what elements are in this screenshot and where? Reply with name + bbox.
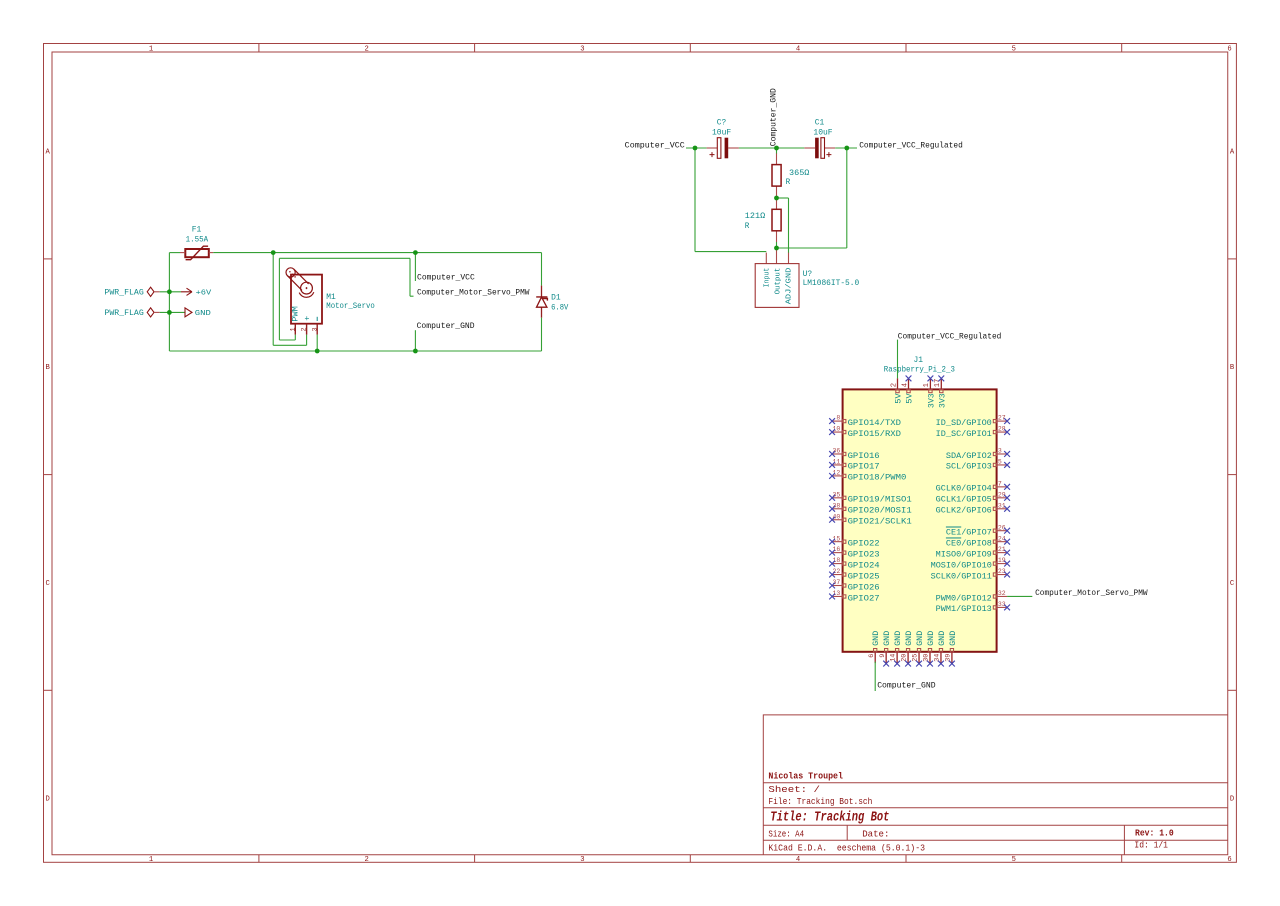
- svg-text:CE1/GPIO7: CE1/GPIO7: [946, 528, 992, 538]
- J1 pin 22 GPIO25: [832, 574, 843, 576]
- junction bottom rail / motor pin 3: [315, 349, 320, 354]
- junction top rail / Computer_VCC stub: [413, 250, 418, 255]
- svg-text:GPIO27: GPIO27: [848, 593, 880, 603]
- junction top rail / motor + branch: [271, 250, 276, 255]
- wire: [160, 291, 181, 293]
- svg-text:GCLK2/GPIO6: GCLK2/GPIO6: [936, 506, 992, 516]
- wire: top rail: [169, 252, 180, 254]
- svg-text:4: 4: [796, 856, 800, 864]
- J1 pin 28 ID_SC/GPIO1: [997, 431, 1008, 433]
- svg-text:B: B: [1230, 364, 1235, 372]
- wire: left branch down to U1 Input: [694, 148, 696, 252]
- J1 pin 4 (top power pin): [908, 378, 910, 389]
- svg-text:Sheet: /: Sheet: /: [768, 784, 820, 795]
- svg-text:+6V: +6V: [196, 290, 212, 298]
- svg-text:A: A: [46, 149, 51, 157]
- capacitor C? polarity +: [710, 152, 715, 157]
- svg-text:5: 5: [998, 459, 1002, 466]
- svg-text:5V: 5V: [905, 393, 915, 403]
- capacitor C1 plates: [815, 138, 819, 159]
- svg-text:ID_SD/GPIO0: ID_SD/GPIO0: [936, 418, 992, 428]
- svg-text:C: C: [46, 580, 51, 588]
- J1 pin 10 GPIO15/RXD: [832, 431, 843, 433]
- svg-text:Size: A4: Size: A4: [768, 829, 804, 840]
- svg-text:1: 1: [289, 327, 297, 331]
- svg-text:GND: GND: [926, 631, 936, 646]
- svg-text:GPIO22: GPIO22: [848, 538, 880, 548]
- svg-text:Rev: 1.0: Rev: 1.0: [1135, 828, 1174, 839]
- svg-text:Computer_GND: Computer_GND: [770, 88, 779, 146]
- svg-text:121Ω: 121Ω: [745, 212, 765, 221]
- fuse F1 body: [185, 249, 209, 257]
- diode D1 zener symbol: [536, 297, 547, 301]
- J1 pin 37 GPIO26: [832, 585, 843, 587]
- svg-text:10: 10: [832, 426, 840, 433]
- svg-text:KiCad E.D.A. eeschema (5.0.1): KiCad E.D.A. eeschema (5.0.1)-3: [768, 843, 925, 854]
- svg-text:1.55A: 1.55A: [186, 235, 209, 244]
- wire: [777, 147, 805, 149]
- svg-text:36: 36: [832, 448, 840, 455]
- motor M1 body: [291, 275, 322, 324]
- J1 pin 3 SDA/GPIO2: [997, 453, 1008, 455]
- svg-text:Nicolas Troupel: Nicolas Troupel: [768, 770, 843, 781]
- svg-text:Computer_VCC_Regulated: Computer_VCC_Regulated: [859, 140, 963, 150]
- svg-text:F1: F1: [192, 225, 202, 234]
- J1 pin 14 GND: [896, 652, 898, 663]
- fuse F1 pins: [180, 252, 185, 254]
- svg-text:GPIO25: GPIO25: [848, 571, 880, 581]
- svg-text:2: 2: [890, 383, 898, 387]
- svg-text:GND: GND: [195, 310, 212, 318]
- connector J1 Raspberry_Pi_2_3 body: [843, 389, 997, 651]
- svg-text:GPIO23: GPIO23: [848, 549, 880, 559]
- wire: jog from node to ADJ pin: [777, 197, 789, 199]
- svg-text:M1: M1: [326, 293, 336, 302]
- svg-text:GND: GND: [915, 631, 925, 646]
- svg-text:20: 20: [901, 654, 909, 662]
- J1 pin 27 ID_SD/GPIO0: [997, 420, 1008, 422]
- svg-text:17: 17: [934, 379, 942, 388]
- wire: [160, 311, 185, 313]
- svg-text:D: D: [46, 796, 50, 804]
- svg-text:30: 30: [923, 654, 931, 662]
- junction at Computer_VCC branch: [693, 146, 698, 151]
- title block: [763, 715, 1227, 855]
- svg-text:6: 6: [1227, 45, 1231, 53]
- J1 pin 1 (top power pin): [929, 378, 931, 389]
- svg-text:LM1086IT-5.0: LM1086IT-5.0: [803, 279, 860, 288]
- svg-text:GPIO15/RXD: GPIO15/RXD: [848, 429, 901, 439]
- svg-text:35: 35: [832, 491, 840, 498]
- diode D1 pins: [541, 253, 543, 286]
- J1 pin 8 GPIO14/TXD: [832, 420, 843, 422]
- svg-text:GPIO14/TXD: GPIO14/TXD: [848, 418, 901, 428]
- svg-text:8: 8: [836, 415, 840, 422]
- svg-text:GPIO24: GPIO24: [848, 560, 880, 570]
- svg-text:4: 4: [901, 383, 909, 387]
- resistor R 365 pins: [776, 153, 778, 165]
- svg-text:3: 3: [580, 45, 584, 53]
- capacitor C1 pins: [804, 147, 815, 149]
- wire: [835, 147, 857, 149]
- J1 pin 18 GPIO24: [832, 563, 843, 565]
- J1 pin 16 GPIO23: [832, 552, 843, 554]
- J1 pin 9 GND: [885, 652, 887, 663]
- J1 pin 2 (top power pin): [897, 378, 899, 389]
- svg-text:Computer_Motor_Servo_PMW: Computer_Motor_Servo_PMW: [1035, 589, 1148, 598]
- J1 pin 21 MISO0/GPIO9: [997, 552, 1008, 554]
- svg-text:R: R: [745, 222, 750, 231]
- svg-text:SDA/GPIO2: SDA/GPIO2: [946, 451, 992, 461]
- svg-text:GND: GND: [937, 631, 947, 646]
- junction at Computer_VCC_Regulated branch: [844, 146, 849, 151]
- capacitor C? pins: [707, 147, 718, 149]
- svg-text:GPIO20/MOSI1: GPIO20/MOSI1: [848, 506, 912, 516]
- svg-text:40: 40: [832, 513, 840, 520]
- svg-text:Computer_GND: Computer_GND: [417, 322, 475, 331]
- J1 pin 23 SCLK0/GPIO11: [997, 574, 1008, 576]
- svg-text:Id: 1/1: Id: 1/1: [1134, 840, 1168, 851]
- svg-text:GCLK0/GPIO4: GCLK0/GPIO4: [936, 484, 992, 494]
- svg-text:Computer_Motor_Servo_PMW: Computer_Motor_Servo_PMW: [417, 289, 530, 298]
- svg-text:ID_SC/GPIO1: ID_SC/GPIO1: [936, 429, 992, 439]
- motor M1 servo icon: [286, 268, 314, 297]
- svg-text:GPIO21/SCLK1: GPIO21/SCLK1: [848, 517, 912, 527]
- wire: [739, 147, 777, 149]
- svg-text:CE0/GPIO8: CE0/GPIO8: [946, 538, 992, 548]
- svg-text:Computer_VCC: Computer_VCC: [417, 273, 475, 282]
- J1 pin 12 GPIO18/PWM0: [832, 475, 843, 477]
- J1 pin 6 GND: [874, 652, 876, 663]
- svg-text:37: 37: [832, 579, 840, 586]
- junction at regulator output node: [774, 246, 779, 251]
- svg-text:Date:: Date:: [862, 829, 889, 840]
- svg-text:GCLK1/GPIO5: GCLK1/GPIO5: [936, 495, 992, 505]
- svg-text:5: 5: [1012, 45, 1016, 53]
- svg-text:3: 3: [580, 856, 584, 864]
- junction +6V row: [167, 289, 172, 294]
- J1 pin 19 MOSI0/GPIO10: [997, 563, 1008, 565]
- wire: outer loop to motor + pin: [272, 253, 274, 346]
- junction GND row: [167, 310, 172, 315]
- capacitor C? plates: [717, 138, 721, 159]
- J1 pin 31 GCLK2/GPIO6: [997, 508, 1008, 510]
- svg-text:15: 15: [832, 535, 840, 542]
- J1 pin 40 GPIO21/SCLK1: [832, 519, 843, 521]
- svg-text:U?: U?: [803, 270, 813, 279]
- svg-text:6: 6: [868, 654, 876, 658]
- svg-text:2: 2: [365, 45, 369, 53]
- svg-text:22: 22: [832, 568, 840, 575]
- resistor R 121 body: [772, 209, 781, 231]
- wire: output node to regulated rail: [777, 247, 847, 249]
- J1 pin 7 GCLK0/GPIO4: [997, 486, 1008, 488]
- svg-text:25: 25: [912, 654, 920, 662]
- svg-text:7: 7: [998, 480, 1002, 487]
- J1 pin 24 CE0/GPIO8: [997, 541, 1008, 543]
- svg-text:5V: 5V: [894, 393, 904, 403]
- svg-text:2: 2: [365, 856, 369, 864]
- svg-text:9: 9: [879, 654, 887, 658]
- svg-text:SCL/GPIO3: SCL/GPIO3: [946, 462, 992, 472]
- svg-text:2: 2: [301, 327, 309, 331]
- J1 pin 29 GCLK1/GPIO5: [997, 497, 1008, 499]
- J1 pin 25 GND: [918, 652, 920, 663]
- svg-text:GPIO18/PWM0: GPIO18/PWM0: [848, 473, 907, 483]
- J1 pin 30 GND: [929, 652, 931, 663]
- svg-text:D1: D1: [551, 293, 561, 302]
- J1 pin 5 SCL/GPIO3: [997, 464, 1008, 466]
- svg-text:5: 5: [1012, 856, 1016, 864]
- J1 pin 38 GPIO20/MOSI1: [832, 508, 843, 510]
- wire: PWM0/GPIO12 to label: [1007, 595, 1032, 597]
- svg-text:MISO0/GPIO9: MISO0/GPIO9: [936, 549, 992, 559]
- regulator U? LM1086IT-5.0 body: [755, 264, 799, 308]
- hierarchical label GND: [185, 308, 192, 317]
- svg-text:GPIO19/MISO1: GPIO19/MISO1: [848, 495, 912, 505]
- svg-text:3V3: 3V3: [926, 393, 936, 408]
- J1 pin 36 GPIO16: [832, 453, 843, 455]
- svg-text:Input: Input: [764, 268, 772, 288]
- svg-text:C?: C?: [717, 119, 727, 128]
- svg-text:GND: GND: [882, 631, 892, 646]
- svg-text:A: A: [1230, 149, 1235, 157]
- svg-text:18: 18: [832, 557, 840, 564]
- svg-text:SCLK0/GPIO11: SCLK0/GPIO11: [931, 571, 992, 581]
- J1 pin 33 PWM1/GPIO13: [997, 606, 1008, 608]
- svg-text:PWR_FLAG: PWR_FLAG: [104, 309, 143, 318]
- svg-text:MOSI0/GPIO10: MOSI0/GPIO10: [931, 560, 992, 570]
- svg-text:13: 13: [832, 590, 840, 597]
- svg-text:GPIO26: GPIO26: [848, 582, 880, 592]
- J1 pin 34 GND: [940, 652, 942, 663]
- svg-text:11: 11: [832, 459, 840, 466]
- J1 pin 35 GPIO19/MISO1: [832, 497, 843, 499]
- svg-text:PWM1/GPIO13: PWM1/GPIO13: [936, 604, 992, 614]
- svg-text:Motor_Servo: Motor_Servo: [326, 302, 375, 311]
- wire: [776, 148, 778, 153]
- J1 pin 32 PWM0/GPIO12: [997, 595, 1008, 597]
- wire stub + label Computer_VCC (motor): [414, 253, 416, 281]
- J1 pin 39 GND: [951, 652, 953, 663]
- wire: motor pin 3 to ground rail: [316, 335, 318, 351]
- resistor R 365 body: [772, 165, 781, 187]
- wire: GND pin 6 stub: [874, 662, 876, 691]
- junction at Computer_GND node: [774, 146, 779, 151]
- J1 pin 20 GND: [907, 652, 909, 663]
- svg-text:32: 32: [998, 590, 1006, 597]
- svg-text:3: 3: [311, 327, 319, 331]
- svg-text:Computer_VCC_Regulated: Computer_VCC_Regulated: [898, 332, 1002, 342]
- J1 pin 26 CE1/GPIO7: [997, 530, 1008, 532]
- svg-text:34: 34: [934, 654, 942, 662]
- junction between resistors (ADJ node): [774, 196, 779, 201]
- svg-text:1: 1: [149, 856, 153, 864]
- svg-text:C1: C1: [815, 119, 825, 128]
- motor pins 1 2 3: [294, 324, 296, 335]
- regulator U? pins: [765, 253, 767, 264]
- J1 pin 13 GPIO27: [832, 595, 843, 597]
- wire: regulated rail into pin 2: [897, 340, 899, 379]
- svg-text:Computer_VCC: Computer_VCC: [625, 141, 685, 150]
- svg-text:4: 4: [796, 45, 800, 53]
- svg-text:Computer_GND: Computer_GND: [877, 682, 935, 691]
- J1 pin 15 GPIO22: [832, 541, 843, 543]
- svg-text:GPIO17: GPIO17: [848, 462, 880, 472]
- wire: inner PWM loop: [294, 335, 296, 340]
- svg-text:1: 1: [923, 383, 931, 387]
- svg-text:3V3: 3V3: [937, 393, 947, 408]
- wire stub + label Computer_GND (motor): [414, 330, 416, 351]
- svg-text:File: Tracking Bot.sch: File: Tracking Bot.sch: [768, 796, 872, 807]
- J1 pin 11 GPIO17: [832, 464, 843, 466]
- junction bottom rail / Computer_GND stub: [413, 349, 418, 354]
- svg-text:GND: GND: [893, 631, 903, 646]
- svg-text:365Ω: 365Ω: [789, 169, 809, 178]
- svg-text:GND: GND: [871, 631, 881, 646]
- hierarchical label +6V: [181, 288, 192, 295]
- svg-text:D: D: [1230, 796, 1234, 804]
- svg-text:Title: Tracking Bot: Title: Tracking Bot: [770, 811, 889, 826]
- svg-text:3: 3: [998, 448, 1002, 455]
- svg-text:+: +: [303, 316, 312, 321]
- svg-text:PWR_FLAG: PWR_FLAG: [104, 288, 143, 297]
- J1 pin 17 (top power pin): [940, 378, 942, 389]
- svg-text:38: 38: [832, 502, 840, 509]
- svg-text:GND: GND: [904, 631, 914, 646]
- svg-text:12: 12: [832, 470, 840, 477]
- svg-text:1: 1: [149, 45, 153, 53]
- svg-text:R: R: [786, 178, 791, 187]
- svg-text:Output: Output: [775, 268, 783, 295]
- svg-text:10uF: 10uF: [813, 129, 832, 138]
- resistor R 121 pins: [776, 198, 778, 209]
- svg-text:10uF: 10uF: [712, 129, 731, 138]
- wire: [776, 242, 778, 248]
- wire: [686, 147, 707, 149]
- capacitor C1 polarity +: [826, 152, 831, 157]
- svg-text:PWM: PWM: [292, 306, 301, 322]
- svg-text:ADJ/GND: ADJ/GND: [786, 267, 794, 304]
- svg-text:PWM0/GPIO12: PWM0/GPIO12: [936, 593, 992, 603]
- svg-text:14: 14: [890, 654, 898, 662]
- svg-text:C: C: [1230, 580, 1235, 588]
- svg-text:GND: GND: [948, 631, 958, 646]
- svg-text:6: 6: [1227, 856, 1231, 864]
- svg-text:B: B: [46, 364, 51, 372]
- wire: left drop: [168, 253, 170, 351]
- svg-text:Raspberry_Pi_2_3: Raspberry_Pi_2_3: [884, 364, 955, 374]
- svg-text:GPIO16: GPIO16: [848, 451, 880, 461]
- svg-text:39: 39: [945, 654, 953, 662]
- svg-text:16: 16: [832, 546, 840, 553]
- svg-text:6.8V: 6.8V: [551, 304, 568, 313]
- wire: bottom rail: [169, 350, 541, 352]
